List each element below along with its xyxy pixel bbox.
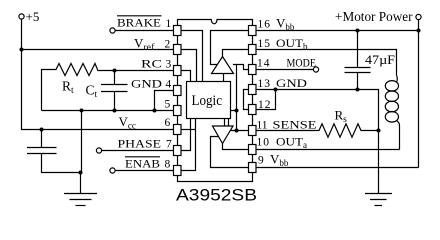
wire MODE line pin14 bbox=[256, 69, 313, 71]
terminal +Motor Power bbox=[335, 9, 421, 24]
label Vref pin2 bbox=[134, 36, 171, 54]
svg-text:+Motor Power: +Motor Power bbox=[335, 9, 413, 24]
node Ct bottom bbox=[113, 109, 117, 113]
svg-text:OUTa: OUTa bbox=[276, 137, 307, 151]
terminal ENAB input bbox=[110, 168, 115, 173]
label PHASE pin7 bbox=[118, 139, 173, 151]
wire pin4 riser bbox=[155, 91, 175, 111]
wire pin1 internal bbox=[181, 31, 203, 82]
node ground junction left bbox=[79, 171, 83, 175]
ground right bbox=[365, 194, 392, 206]
label OUTb pin15 bbox=[258, 38, 309, 52]
svg-text:11: 11 bbox=[257, 120, 268, 132]
node +5/Vref junction bbox=[20, 48, 24, 52]
node 47uF bottom bbox=[356, 88, 360, 92]
terminal +5 bbox=[19, 9, 39, 24]
wire Vbb9 line bbox=[256, 167, 419, 169]
svg-text:GND: GND bbox=[131, 79, 162, 91]
wire sense net to driver2 base bbox=[229, 111, 237, 127]
wire pin6 internal bbox=[181, 129, 196, 131]
svg-text:5: 5 bbox=[165, 99, 171, 111]
svg-text:47µF: 47µF bbox=[365, 53, 395, 67]
terminal PHASE input bbox=[96, 148, 101, 153]
svg-text:Logic: Logic bbox=[192, 93, 223, 109]
wire stub to left ground bbox=[80, 173, 82, 194]
capacitor C2 bypass bbox=[27, 130, 81, 173]
node 47uF tap bbox=[356, 29, 360, 33]
node gnd-drop tap bbox=[80, 109, 84, 113]
svg-text:13: 13 bbox=[258, 78, 271, 90]
wire Vref line pin2 bbox=[22, 49, 175, 51]
svg-text:10: 10 bbox=[257, 137, 270, 149]
wire +5 rail down left side to Vcc line bbox=[22, 19, 175, 129]
wire driver2 apex to pin10 bbox=[223, 144, 249, 150]
node sense/ground junction bbox=[377, 129, 381, 133]
logic block bbox=[187, 82, 231, 119]
label RC pin3 bbox=[141, 59, 172, 71]
svg-text:9: 9 bbox=[258, 155, 264, 167]
wire motor power drop right edge bbox=[418, 20, 420, 168]
label Vbb pin9 bbox=[258, 152, 289, 169]
wire PHASE line pin7 bbox=[102, 150, 174, 152]
svg-text:BRAKE: BRAKE bbox=[117, 18, 161, 30]
svg-text:4: 4 bbox=[166, 79, 172, 91]
svg-text:2: 2 bbox=[165, 39, 171, 51]
wire pin9 internal to driver2 bbox=[211, 137, 249, 168]
label SENSE pin11 bbox=[257, 120, 317, 132]
ground left bbox=[64, 194, 97, 206]
wire logic to driver2 base bbox=[224, 119, 226, 127]
node sense net upper bbox=[235, 109, 239, 113]
svg-text:8: 8 bbox=[165, 159, 171, 171]
svg-text:PHASE: PHASE bbox=[118, 139, 162, 151]
svg-text:RC: RC bbox=[141, 59, 162, 71]
wire sense net to pin11 and driver2 side bbox=[230, 130, 248, 132]
wire coil bottom to OUTa bbox=[399, 126, 401, 150]
node sense net lower bbox=[235, 129, 239, 133]
svg-text:ENAB: ENAB bbox=[125, 159, 160, 171]
label Vcc pin6 bbox=[119, 114, 171, 131]
node pin4/5 riser bbox=[153, 109, 157, 113]
terminal BRAKE input bbox=[110, 28, 115, 33]
node Vbb/motor power bbox=[417, 29, 421, 33]
svg-text:SENSE: SENSE bbox=[273, 120, 317, 132]
wire OUTb to motor coil bbox=[256, 50, 397, 76]
terminal MODE open bbox=[313, 67, 318, 72]
label BRAKE pin1 bbox=[117, 16, 172, 30]
wire ground drop from rail bbox=[81, 111, 83, 173]
label MODE pin14 bbox=[257, 58, 316, 70]
svg-text:6: 6 bbox=[165, 117, 171, 129]
op-amp driver1 (upper, points up) bbox=[212, 57, 234, 74]
node pin12/GND junction bbox=[274, 88, 278, 92]
op-amp U1 body A3952SB outline bbox=[178, 20, 253, 182]
wire pin14 internal bbox=[237, 65, 249, 70]
svg-text:+5: +5 bbox=[26, 9, 40, 24]
svg-text:15: 15 bbox=[258, 38, 271, 50]
svg-text:7: 7 bbox=[166, 139, 172, 151]
capacitor 47uF bbox=[345, 31, 396, 91]
wire pin12 to GND13 line bbox=[256, 90, 276, 110]
pin boxes right 16-9 bbox=[249, 26, 257, 173]
label GND pin4 bbox=[131, 79, 172, 91]
wire pin16 internal to driver1 bbox=[211, 31, 249, 65]
wire Vbb16 line bbox=[256, 30, 419, 32]
svg-text:16: 16 bbox=[258, 19, 271, 31]
pin boxes left 1-8 bbox=[174, 26, 182, 176]
wire pin2 internal bbox=[181, 50, 197, 82]
resistor Rs bbox=[256, 108, 379, 138]
wire driver1 base to logic bbox=[223, 74, 225, 82]
node bypass cap tap on Vcc line bbox=[40, 128, 44, 132]
wire ground rail y=110 to pin5 bbox=[42, 110, 175, 112]
wire pin7 internal bbox=[181, 119, 191, 151]
label Vbb pin16 bbox=[258, 16, 295, 33]
wire pin15 internal from driver1 apex bbox=[223, 50, 249, 58]
svg-text:14: 14 bbox=[257, 58, 270, 70]
wire OUTa line bbox=[256, 149, 400, 151]
wire pin8 internal bbox=[181, 119, 196, 171]
wire GND13 line to ground bbox=[256, 90, 379, 194]
svg-text:3: 3 bbox=[166, 59, 172, 71]
wire ENAB line pin8 bbox=[115, 170, 174, 172]
capacitor Ct bbox=[86, 71, 128, 111]
wire BRAKE line pin1 bbox=[115, 30, 174, 32]
op-amp driver2 (lower, points down) bbox=[213, 126, 234, 144]
wire driver1 right side to sense net bbox=[233, 65, 237, 131]
label ENAB pin8 bbox=[125, 157, 171, 171]
wire RC line pin3 bbox=[98, 70, 175, 71]
svg-text:GND: GND bbox=[276, 78, 307, 90]
wire pin13-pin12 internal link bbox=[244, 90, 249, 110]
svg-text:MODE: MODE bbox=[287, 58, 317, 70]
node Rt/Ct/RC junction bbox=[113, 69, 117, 73]
resistor Rt bbox=[42, 64, 98, 111]
svg-text:1: 1 bbox=[166, 18, 172, 30]
inductor motor winding bbox=[385, 75, 399, 125]
svg-text:A3952SB: A3952SB bbox=[176, 186, 257, 205]
wire pin3 internal bbox=[181, 71, 191, 82]
label GND pin13 bbox=[258, 78, 308, 90]
label OUTa pin10 bbox=[257, 137, 308, 151]
